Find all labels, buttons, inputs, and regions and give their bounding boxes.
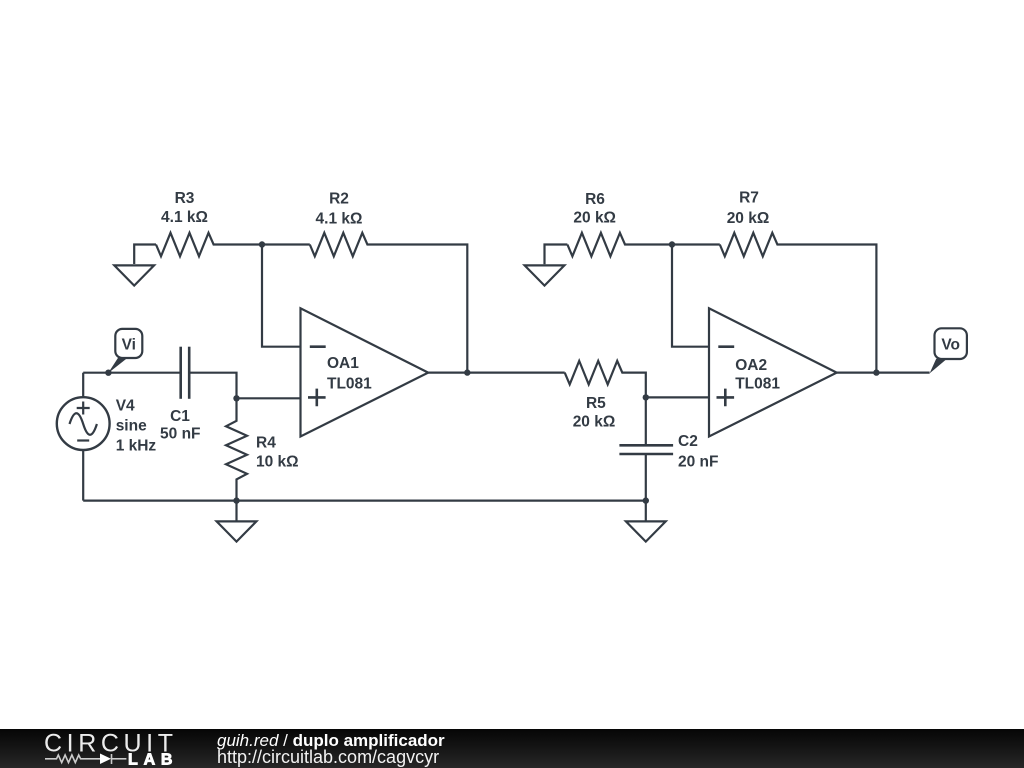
svg-text:sine: sine: [116, 418, 147, 435]
svg-text:R7: R7: [739, 190, 759, 207]
svg-text:C2: C2: [678, 433, 698, 450]
svg-text:10 kΩ: 10 kΩ: [256, 453, 299, 470]
svg-text:Vi: Vi: [122, 336, 136, 353]
svg-text:4.1 kΩ: 4.1 kΩ: [161, 209, 208, 226]
svg-text:Vo: Vo: [941, 337, 960, 354]
svg-text:C1: C1: [170, 408, 190, 425]
svg-text:R5: R5: [586, 395, 606, 412]
svg-text:TL081: TL081: [327, 375, 372, 392]
svg-text:OA1: OA1: [327, 355, 359, 372]
svg-text:OA2: OA2: [735, 357, 767, 374]
svg-text:20 kΩ: 20 kΩ: [727, 210, 770, 227]
svg-text:20 kΩ: 20 kΩ: [573, 210, 616, 227]
svg-text:50 nF: 50 nF: [160, 426, 200, 443]
svg-text:TL081: TL081: [735, 376, 780, 393]
svg-text:R6: R6: [585, 191, 605, 208]
svg-text:LAB: LAB: [128, 751, 178, 768]
svg-text:R3: R3: [175, 190, 195, 207]
svg-text:1 kHz: 1 kHz: [116, 438, 157, 455]
svg-text:20 nF: 20 nF: [678, 454, 718, 471]
svg-text:20 kΩ: 20 kΩ: [573, 414, 616, 431]
svg-text:4.1 kΩ: 4.1 kΩ: [316, 210, 363, 227]
svg-text:R4: R4: [256, 435, 276, 452]
svg-text:R2: R2: [329, 191, 349, 208]
svg-text:V4: V4: [116, 398, 135, 415]
